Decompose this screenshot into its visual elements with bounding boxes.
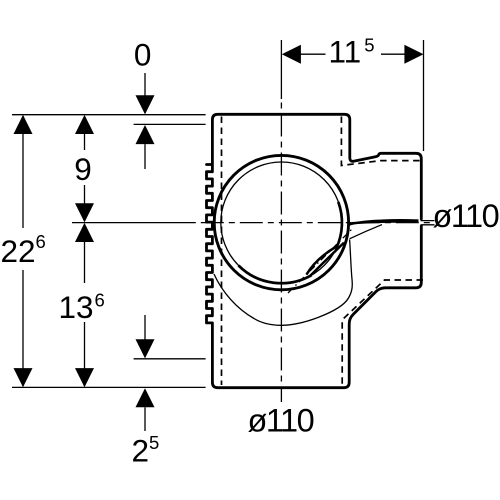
inner socket circle bold right arc [336, 202, 342, 248]
lens continuation thin lines to label [421, 221, 435, 225]
hidden dashed line bottom-right socket [342, 280, 423, 386]
svg-text:ø110: ø110 [248, 403, 314, 439]
arrow up 9 top [75, 115, 94, 134]
branch inner leaf upper arc [307, 247, 337, 275]
dimension 2.5 stem above [144, 315, 146, 340]
svg-text:ø110: ø110 [433, 198, 499, 234]
arrow down 13.6 bottom [75, 368, 94, 387]
extension line right of 11.5 [423, 40, 425, 151]
vertical centerline of socket [280, 99, 282, 402]
dimension 9 vertical line x=84.5 [84, 117, 86, 220]
branch outer thin curve [214, 240, 352, 326]
dimension line bottom reference, y=387.4 [12, 386, 206, 388]
arrow up 13.6 top at centerline [75, 223, 94, 242]
inner socket circle bold lower-left arc [239, 266, 312, 284]
horizontal centerline [72, 222, 190, 224]
arrow up 2.5 below bottom line [136, 388, 155, 407]
outer socket circle [214, 155, 348, 289]
hidden dashed line left socket depth [221, 117, 223, 386]
arrow down 9 bottom at centerline [75, 203, 94, 222]
inner socket circle thin [221, 162, 342, 283]
arrow up 22.6 top [14, 115, 33, 134]
dimension 0 stem above [144, 73, 146, 112]
dimension line 0 reference top, y=114.7 [12, 114, 206, 116]
branch lower thin diagonal to lens [350, 225, 383, 239]
arrow right 11.5 [404, 45, 423, 64]
arrow down 0 onto top line [136, 95, 155, 114]
branch axis dash-dot diagonal [288, 229, 352, 293]
dimension 2.5 stem below [144, 407, 146, 431]
dimension reference line 2.5 above bottom, y=358.8 [134, 358, 206, 360]
extension line left of 11.5 (to centerline) [280, 40, 282, 99]
arrow down 22.6 bottom [14, 368, 33, 387]
dimension 11.5 horizontal line y=54.2 [300, 53, 405, 55]
arrow left 11.5 [282, 45, 301, 64]
dimension 22.6 vertical line x=23 [22, 116, 24, 386]
body outline [207, 114, 422, 387]
svg-text:9: 9 [74, 151, 92, 187]
branch inner leaf lower arc [310, 243, 345, 277]
hidden dashed line top-right socket [341, 117, 420, 166]
dimension reference line at 0.9 below top [134, 123, 206, 125]
branch opening lens upper bold [349, 220, 419, 224]
arrow down 2.5 onto 2.5-line [136, 339, 155, 358]
dimension 13.6 vertical line x=84.5 [84, 225, 86, 386]
branch opening lens lower bold [352, 221, 419, 223]
dimension 0 stem below [144, 144, 146, 169]
svg-text:0: 0 [134, 36, 152, 72]
arrow up 0 below second line [136, 125, 155, 144]
